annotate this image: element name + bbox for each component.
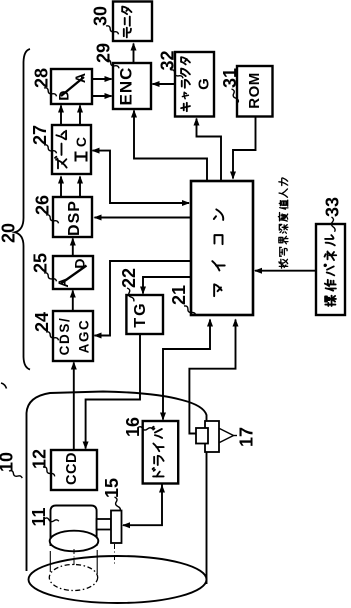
- wire TG to CCD: [86, 334, 140, 449]
- DSP box 26: [53, 197, 92, 237]
- ENC box 29: [113, 63, 151, 109]
- actuator 15 connector: [97, 519, 111, 530]
- svg-text:17: 17: [237, 427, 257, 447]
- svg-text:26: 26: [33, 195, 53, 215]
- wire A/D to DSP: [72, 239, 74, 257]
- svg-text:D: D: [71, 258, 87, 268]
- svg-text:33: 33: [323, 197, 343, 217]
- driver box 16: [143, 421, 179, 484]
- monitor box 30: [113, 2, 152, 42]
- wire zoomIC to D/A a: [60, 106, 62, 126]
- wire zoomIC to D/A b: [79, 106, 81, 126]
- svg-text:AGC: AGC: [77, 319, 92, 354]
- svg-text:G: G: [196, 78, 213, 90]
- barrel front rim ellipse: [29, 556, 207, 603]
- svg-text:30: 30: [91, 6, 111, 26]
- stray mark near barrel left: [1, 383, 7, 389]
- wire DSP to zoomIC a: [60, 177, 62, 198]
- svg-text:29: 29: [94, 43, 114, 63]
- wire ROM to microcomputer: [233, 117, 256, 179]
- pointer for 17: [220, 429, 234, 443]
- wire microcomputer to TG: [143, 277, 190, 294]
- svg-text:31: 31: [220, 68, 240, 88]
- wire microcomputer-driver: [163, 320, 210, 420]
- wire microcomputer to ENC: [134, 111, 207, 181]
- depth-of-field input label: [279, 259, 288, 268]
- wire DSP to zoomIC b: [79, 177, 81, 198]
- brace 20: [15, 49, 30, 370]
- wire characterG to ENC: [153, 83, 176, 85]
- wire microcomputer to characterG: [197, 119, 222, 181]
- lens group 11 body: [51, 506, 97, 547]
- svg-text:A: A: [55, 277, 71, 287]
- svg-text:11: 11: [29, 507, 49, 526]
- operation panel box 33: [316, 224, 345, 315]
- lens element ellipse: [50, 531, 99, 552]
- wire microcomputer to CDS/AGC: [95, 261, 191, 336]
- wire CDS/AGC to A/D: [72, 291, 74, 312]
- phantom lens ellipse (dash-dot): [49, 565, 97, 591]
- svg-text:CCD: CCD: [64, 452, 80, 485]
- wire D/A to ENC b: [92, 95, 112, 97]
- lens skirt lines: [49, 551, 51, 572]
- optical axis dash-dot: [73, 549, 75, 566]
- svg-text:DSP: DSP: [66, 200, 83, 236]
- svg-text:28: 28: [32, 68, 52, 88]
- TG box 22: [126, 295, 163, 334]
- wire CCD to CDS/AGC: [73, 363, 75, 451]
- svg-text:CDS/: CDS/: [57, 317, 72, 356]
- svg-text:24: 24: [32, 312, 52, 332]
- svg-text:20: 20: [0, 223, 19, 243]
- letter I of IC: [76, 155, 87, 157]
- zoom IC box 27: [52, 125, 91, 174]
- lens barrel 10 outline: [27, 392, 207, 585]
- sensor 17 outer box: [205, 421, 219, 452]
- svg-text:D: D: [55, 90, 71, 100]
- wire microcomputer to DSP: [95, 217, 191, 219]
- svg-text:TG: TG: [132, 301, 149, 327]
- svg-text:15: 15: [102, 478, 122, 498]
- svg-text:32: 32: [158, 50, 178, 70]
- svg-text:C: C: [73, 137, 89, 147]
- wire microcomputer-zoomIC bidirectional: [93, 151, 190, 203]
- svg-text:12: 12: [30, 449, 50, 469]
- wire sensor17 to microcomputer: [189, 320, 235, 434]
- wire D/A to ENC a: [92, 78, 112, 80]
- svg-text:25: 25: [31, 253, 51, 273]
- wire ENC to monitor: [133, 44, 135, 64]
- sensor 17 inner box: [196, 428, 208, 444]
- CDS/AGC box 24: [53, 311, 93, 361]
- CCD box 12: [51, 450, 97, 490]
- svg-text:27: 27: [30, 125, 50, 145]
- D/A box 28: [51, 69, 92, 104]
- svg-text:A: A: [72, 73, 88, 83]
- svg-text:10: 10: [0, 452, 17, 472]
- A/D box 25: [53, 256, 93, 289]
- svg-text:22: 22: [119, 268, 139, 288]
- svg-text:21: 21: [169, 285, 189, 305]
- wire driver to actuator: [123, 484, 162, 526]
- svg-text:ENC: ENC: [117, 67, 136, 106]
- wire operation panel to microcomputer: [255, 270, 316, 272]
- svg-text:ROM: ROM: [246, 72, 263, 109]
- ROM box 31: [237, 66, 273, 117]
- D/A slash: [61, 77, 84, 96]
- A/D slash: [61, 266, 87, 284]
- microcomputer box 21: [191, 181, 253, 315]
- characterG box 32: [175, 52, 214, 117]
- actuator 15 body: [111, 511, 122, 544]
